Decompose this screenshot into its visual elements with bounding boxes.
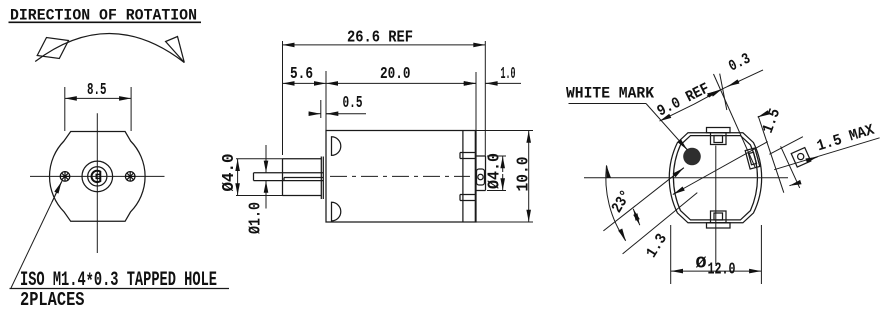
svg-text:Ø: Ø [696,255,707,274]
svg-text:26.6 REF: 26.6 REF [347,29,413,48]
svg-text:1.0: 1.0 [501,65,516,84]
svg-text:WHITE MARK: WHITE MARK [566,85,655,103]
svg-text:5.6: 5.6 [290,65,313,84]
svg-text:20.0: 20.0 [380,65,411,84]
svg-text:8.5: 8.5 [87,81,107,100]
svg-text:12.0: 12.0 [708,261,736,280]
svg-text:Ø4.0: Ø4.0 [486,153,505,189]
svg-text:Ø1.0: Ø1.0 [247,202,266,234]
svg-text:2PLACES: 2PLACES [20,289,85,311]
svg-text:Ø4.0: Ø4.0 [220,154,239,192]
svg-text:0.5: 0.5 [343,94,363,113]
svg-text:10.0: 10.0 [515,157,534,192]
